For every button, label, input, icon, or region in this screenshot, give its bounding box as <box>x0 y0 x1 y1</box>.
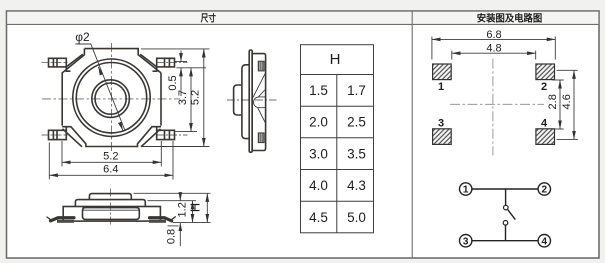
svg-text:5.2: 5.2 <box>190 90 202 105</box>
lead row centerline bottom-right <box>157 134 188 136</box>
internal diagonal dome-to-wall <box>259 90 266 97</box>
terminal circle 1 <box>460 183 472 195</box>
pad 3 <box>433 129 452 145</box>
svg-text:3: 3 <box>438 118 444 130</box>
header rule <box>301 74 374 76</box>
tier 2 <box>75 200 145 207</box>
φ2 arrow upper <box>98 67 101 74</box>
svg-text:4: 4 <box>541 118 548 130</box>
wire stub lower <box>505 225 507 241</box>
right foot pad <box>149 220 166 223</box>
panel divider <box>411 11 413 258</box>
ext line body top right <box>141 48 210 50</box>
lead bottom-right <box>157 130 175 139</box>
ext line body left bottom <box>61 141 63 167</box>
ext line lead bottom edge <box>177 67 207 69</box>
ext line body bottom right <box>141 146 210 148</box>
lead top-left <box>49 58 67 67</box>
svg-text:4.5: 4.5 <box>309 210 328 225</box>
dim 6.4 line <box>49 174 173 176</box>
switch blade <box>508 210 516 220</box>
ext line lead left end <box>48 143 50 180</box>
ext lines 4.8 <box>451 51 453 60</box>
wire top <box>472 188 538 190</box>
ext line lead right end <box>172 141 174 180</box>
svg-text:6.4: 6.4 <box>103 163 118 175</box>
svg-text:H: H <box>330 51 341 68</box>
svg-text:3.5: 3.5 <box>347 146 366 161</box>
base rect <box>63 207 160 222</box>
dim 3.7 line <box>190 68 192 132</box>
header band <box>7 12 598 24</box>
header bottom rule <box>7 23 600 25</box>
pad 1 <box>433 64 452 80</box>
lead row centerline top-left <box>42 62 69 64</box>
svg-text:1.5: 1.5 <box>309 83 328 98</box>
terminal circle 4 <box>538 235 550 247</box>
φ2 arrow lower <box>120 123 123 130</box>
centerline <box>227 99 277 101</box>
svg-text:安装图及电路图: 安装图及电路图 <box>477 13 543 25</box>
svg-text:2: 2 <box>542 185 548 196</box>
svg-text:5.0: 5.0 <box>347 210 366 225</box>
bottom lead square <box>258 133 264 143</box>
svg-text:4: 4 <box>542 236 548 247</box>
φ2 leader line <box>75 44 125 131</box>
body outline <box>62 49 161 147</box>
svg-text:4.6: 4.6 <box>561 94 573 109</box>
pad 2 <box>536 64 555 80</box>
svg-text:2: 2 <box>541 81 547 93</box>
svg-text:4.0: 4.0 <box>309 178 328 193</box>
table outline <box>301 45 374 233</box>
dome (D-shape) <box>254 97 266 108</box>
svg-text:2.8: 2.8 <box>547 94 559 109</box>
svg-text:1: 1 <box>463 185 469 196</box>
svg-text:3.0: 3.0 <box>309 146 328 161</box>
moulding top line <box>83 209 140 211</box>
corner step top-right <box>153 67 157 71</box>
dim 5.2 bottom line <box>62 161 161 163</box>
svg-text:0.8: 0.8 <box>166 229 178 244</box>
svg-text:6.8: 6.8 <box>486 29 501 41</box>
row rules <box>301 105 374 107</box>
contact upper <box>504 205 509 210</box>
column rule <box>336 75 338 233</box>
ext line seat <box>173 222 211 224</box>
svg-text:0.5: 0.5 <box>167 75 179 90</box>
svg-text:1.7: 1.7 <box>347 83 366 98</box>
ext line tier2 top <box>148 200 197 202</box>
wire stub upper <box>505 189 507 205</box>
bulge 1 <box>242 65 249 139</box>
bulge 2 (button tip) <box>234 85 242 115</box>
svg-text:尺寸: 尺寸 <box>201 13 217 25</box>
svg-text:5.2: 5.2 <box>103 151 118 163</box>
ext lines 2.8 <box>553 79 564 81</box>
terminal circle 2 <box>538 183 550 195</box>
left foot pad <box>57 220 74 223</box>
body right part <box>252 54 265 151</box>
dim 4.6 line <box>573 70 575 139</box>
lead bottom-left <box>49 130 67 139</box>
ext line pcb plane <box>168 225 179 227</box>
top lead square <box>258 61 264 71</box>
lead top-right <box>157 58 175 67</box>
dim 6.8 line <box>432 38 555 40</box>
internal diagonal upper <box>252 74 265 99</box>
horizontal centerline <box>42 98 180 100</box>
centerline vertical <box>110 189 112 227</box>
dim 0.5 lower leg <box>180 68 182 96</box>
terminal circle 3 <box>460 235 472 247</box>
dim 0.5 upper leg <box>180 51 182 62</box>
ext line body right bottom <box>160 141 162 167</box>
right lead <box>150 217 176 221</box>
svg-text:φ2: φ2 <box>75 30 90 44</box>
button circle (double) <box>92 80 130 118</box>
ext line button top <box>134 192 211 194</box>
internal diagonal lower <box>258 108 265 123</box>
svg-text:3: 3 <box>463 236 469 247</box>
outer circle (rim, double) <box>73 59 150 136</box>
corner step top-left <box>66 67 70 71</box>
horizontal centerline <box>450 103 544 105</box>
ext lines 4.6 <box>557 69 578 71</box>
svg-text:2.0: 2.0 <box>309 115 328 130</box>
svg-text:2.5: 2.5 <box>347 115 366 130</box>
corner chamfer inner line top-right <box>140 54 156 67</box>
contact lower <box>503 221 508 226</box>
base inner moulding <box>83 208 140 220</box>
corner step bottom-right <box>156 127 158 130</box>
svg-text:4.3: 4.3 <box>347 178 366 193</box>
wire bottom <box>472 240 538 242</box>
dim 5.2 vertical line <box>203 49 205 147</box>
vertical centerline <box>492 59 494 155</box>
dim 2.8 line <box>559 80 561 129</box>
ext line lead top edge <box>175 61 187 63</box>
dim H line <box>206 193 208 222</box>
dim 4.8 line <box>452 52 536 54</box>
dim 1.2 line <box>192 201 194 223</box>
button cap <box>89 194 131 200</box>
svg-text:1: 1 <box>438 81 444 93</box>
corner chamfer inner line bottom-right <box>141 129 161 147</box>
lead row centerline top-right <box>157 62 188 64</box>
corner chamfer inner line top-left <box>66 54 82 67</box>
pad 4 <box>536 129 555 145</box>
ext line lower lead top edge <box>176 131 198 133</box>
svg-text:H: H <box>188 203 203 212</box>
vertical centerline <box>111 43 113 153</box>
lead row centerline bottom-left <box>42 134 69 136</box>
svg-text:4.8: 4.8 <box>486 43 501 55</box>
ext lines 6.8 <box>431 37 433 60</box>
svg-text:3.7: 3.7 <box>177 90 189 105</box>
left lead <box>47 217 74 221</box>
corner step bottom-left <box>65 127 67 130</box>
dim 1.2 outer legs / 0.8 leader <box>179 194 181 201</box>
plate <box>249 50 252 152</box>
corner chamfer inner line bottom-left <box>63 129 83 147</box>
